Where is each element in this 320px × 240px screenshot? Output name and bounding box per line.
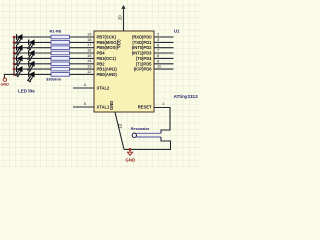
resonator LS1 bbox=[132, 133, 161, 137]
wire row 2 bbox=[14, 41, 94, 43]
node junction row 6 bbox=[13, 63, 16, 66]
wire pin 2 PD0 bbox=[154, 36, 174, 38]
resistor R8 bbox=[51, 73, 70, 77]
label 330ohm bbox=[46, 77, 62, 82]
svg-text:16: 16 bbox=[87, 47, 92, 52]
wire pin 8 PD4 bbox=[154, 57, 174, 59]
pin number 10 (rotated) bbox=[117, 123, 122, 128]
label Resonator bbox=[131, 127, 150, 131]
pin number 8 bbox=[157, 53, 160, 58]
pin XTAL2 stub (pin 4) bbox=[73, 87, 94, 89]
pin name PB0(AIN0) bbox=[97, 72, 118, 77]
pin number 6 bbox=[157, 42, 160, 47]
wire pin 11 PD6 bbox=[154, 68, 174, 70]
pin name PB5(MOSI) bbox=[97, 45, 119, 50]
pin number 9 bbox=[157, 58, 160, 63]
pin name PB1(AIN1) bbox=[97, 67, 118, 72]
svg-text:(T0)PD4: (T0)PD4 bbox=[136, 56, 152, 61]
svg-text:(ICP)PD6: (ICP)PD6 bbox=[134, 67, 152, 72]
pin number 2 bbox=[157, 32, 160, 37]
wire row 1 bbox=[14, 36, 94, 38]
LED D4 bbox=[27, 50, 34, 61]
pin number 11 bbox=[157, 64, 162, 69]
wire pin 6 PD2 bbox=[154, 47, 174, 49]
pin name GND (rotated) bbox=[109, 101, 114, 110]
IC U1 ATtiny2313 body bbox=[94, 31, 154, 112]
pin name PB6(MISO) bbox=[97, 40, 119, 45]
svg-text:U1: U1 bbox=[174, 29, 180, 34]
wire row 7 bbox=[14, 68, 94, 70]
svg-text:PB5(MOSI): PB5(MOSI) bbox=[97, 45, 119, 50]
pin number 19 bbox=[87, 31, 92, 36]
pin number 14 bbox=[87, 58, 92, 63]
pin name XTAL1 bbox=[97, 105, 111, 110]
svg-text:RESET: RESET bbox=[138, 105, 152, 110]
label LED lite bbox=[18, 89, 35, 94]
svg-text:(T1)PD5: (T1)PD5 bbox=[136, 61, 152, 66]
svg-text:12: 12 bbox=[87, 69, 92, 74]
resistor R6 bbox=[51, 62, 70, 66]
resistor R7 bbox=[51, 67, 70, 71]
node junction GND net bbox=[129, 148, 132, 151]
svg-text:15: 15 bbox=[87, 53, 92, 58]
label ATtiny2313 bbox=[174, 94, 199, 99]
LED D7 bbox=[15, 66, 22, 77]
LED D1 bbox=[15, 34, 22, 45]
pin name PB4 bbox=[97, 51, 106, 56]
wire row 3 bbox=[14, 47, 94, 49]
svg-text:XTAL1: XTAL1 bbox=[97, 105, 111, 110]
svg-text:(INT1)PD3: (INT1)PD3 bbox=[132, 51, 152, 56]
pin number 3 bbox=[157, 37, 160, 42]
svg-text:13: 13 bbox=[87, 64, 92, 69]
wire pin 7 PD3 bbox=[154, 52, 174, 54]
pin name PB2 bbox=[97, 61, 106, 66]
wire pin 3 PD1 bbox=[154, 41, 174, 43]
LED D5 bbox=[15, 55, 22, 66]
svg-text:PB4: PB4 bbox=[97, 51, 106, 56]
pin XTAL1 stub (pin 5) bbox=[73, 106, 94, 108]
svg-text:PB1(AIN1): PB1(AIN1) bbox=[97, 67, 118, 72]
wire VCC pin 20 bbox=[123, 9, 125, 31]
wire row 4 bbox=[14, 52, 94, 54]
pin number 1 bbox=[162, 101, 165, 106]
wire LED cathode bus bbox=[13, 37, 15, 74]
svg-text:10: 10 bbox=[117, 123, 122, 128]
ground symbol left bbox=[0, 78, 9, 87]
pin name (RXD)PD0 bbox=[132, 35, 152, 40]
svg-text:PB7(SCK): PB7(SCK) bbox=[97, 35, 117, 40]
pin name (T1)PD5 bbox=[136, 61, 152, 66]
wire row 5 bbox=[14, 57, 94, 59]
resistor R5 bbox=[51, 57, 70, 61]
svg-text:PB2: PB2 bbox=[97, 61, 106, 66]
pin name (TXD)PD1 bbox=[132, 40, 152, 45]
svg-text:(TXD)PD1: (TXD)PD1 bbox=[132, 40, 152, 45]
node junction row 1 bbox=[13, 36, 16, 39]
svg-text:ATtiny2313: ATtiny2313 bbox=[174, 94, 199, 99]
pin number 7 bbox=[157, 48, 160, 53]
pin number 12 bbox=[87, 69, 92, 74]
wire LED bus to ground bbox=[4, 74, 14, 78]
resistor R2 bbox=[51, 41, 70, 45]
node junction row 2 bbox=[13, 41, 16, 44]
svg-text:PB0(AIN0): PB0(AIN0) bbox=[97, 72, 118, 77]
pin name PB7(SCK) bbox=[97, 35, 117, 40]
svg-text:GND: GND bbox=[125, 158, 136, 163]
pin name RESET bbox=[138, 105, 152, 110]
svg-text:330ohm: 330ohm bbox=[46, 77, 62, 82]
label U1 bbox=[174, 29, 180, 34]
svg-text:GND: GND bbox=[0, 83, 9, 87]
svg-text:R1-R8: R1-R8 bbox=[50, 29, 62, 34]
pin name PB3(OC1) bbox=[97, 56, 117, 61]
svg-text:(RXD)PD0: (RXD)PD0 bbox=[132, 35, 152, 40]
LED D3 bbox=[15, 45, 22, 56]
node junction row 5 bbox=[13, 57, 16, 60]
svg-text:20: 20 bbox=[118, 15, 123, 20]
pin number 5 bbox=[84, 101, 87, 106]
resistor R3 bbox=[51, 46, 70, 50]
svg-text:(INT0)PD2: (INT0)PD2 bbox=[132, 45, 152, 50]
svg-text:14: 14 bbox=[87, 58, 92, 63]
svg-text:Resonator: Resonator bbox=[131, 127, 150, 131]
wire row 6 bbox=[14, 63, 94, 65]
svg-text:GND: GND bbox=[109, 101, 114, 110]
wire resonator to GND bbox=[124, 137, 171, 149]
pin name XTAL2 bbox=[97, 86, 111, 91]
label R1-R8 bbox=[50, 29, 62, 34]
wire row 8 bbox=[14, 73, 94, 75]
pin number 18 bbox=[87, 37, 92, 42]
pin name (ICP)PD6 bbox=[134, 67, 152, 72]
svg-text:17: 17 bbox=[87, 42, 92, 47]
LED D6 bbox=[27, 61, 34, 72]
pin name (INT0)PD2 bbox=[132, 45, 152, 50]
node junction row 8 bbox=[13, 73, 16, 76]
pin number 20 (rotated) bbox=[118, 15, 123, 20]
svg-text:XTAL2: XTAL2 bbox=[97, 86, 111, 91]
wire pin 9 PD5 bbox=[154, 63, 174, 65]
LED D8 bbox=[27, 71, 34, 82]
LED D2 bbox=[27, 39, 34, 50]
node junction row 7 bbox=[13, 68, 16, 71]
power terminal +V bbox=[121, 5, 125, 9]
node junction row 3 bbox=[13, 46, 16, 49]
svg-text:19: 19 bbox=[87, 31, 92, 36]
resistor R4 bbox=[51, 51, 70, 55]
wire GND pin 10 (diagonal) bbox=[115, 112, 124, 149]
pin number 15 bbox=[87, 53, 92, 58]
svg-text:VCC: VCC bbox=[117, 39, 122, 48]
svg-text:LED lite: LED lite bbox=[18, 89, 35, 94]
wire RESET pin 1 bbox=[154, 108, 170, 134]
pin number 13 bbox=[87, 64, 92, 69]
pin number 17 bbox=[87, 42, 92, 47]
pin number 16 bbox=[87, 47, 92, 52]
ground symbol right bbox=[125, 149, 136, 162]
pin name (T0)PD4 bbox=[136, 56, 152, 61]
node junction row 4 bbox=[13, 52, 16, 55]
svg-text:PB6(MISO): PB6(MISO) bbox=[97, 40, 119, 45]
pin name (INT1)PD3 bbox=[132, 51, 152, 56]
resistor R1 bbox=[51, 35, 70, 39]
pin name VCC (rotated) bbox=[117, 39, 122, 48]
svg-text:18: 18 bbox=[87, 37, 92, 42]
svg-text:PB3(OC1): PB3(OC1) bbox=[97, 56, 117, 61]
pin number 4 bbox=[84, 82, 87, 87]
